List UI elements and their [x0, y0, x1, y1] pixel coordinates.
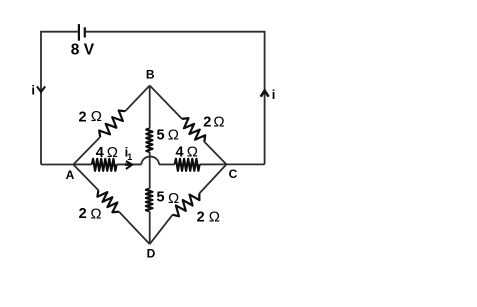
resistor 4-ohm left (A side) [92, 159, 117, 171]
svg-text:Ω: Ω [209, 208, 220, 225]
wire B to upper 5-ohm resistor [149, 86, 151, 129]
wire right to node C [226, 163, 264, 165]
resistor 5-ohm upper [146, 129, 152, 152]
resistor 2-ohm on arm B-C [182, 118, 205, 142]
resistor 4-ohm right (C side) [175, 159, 200, 171]
resistor 2-ohm on arm D-C [173, 194, 200, 217]
wire A to resistor on A-D arm [73, 165, 98, 191]
wire A to resistor on A-B arm [73, 137, 100, 165]
battery 8V long plate [78, 24, 80, 41]
wire A to left 4-ohm resistor [73, 163, 92, 165]
resistor 5-ohm lower [146, 189, 153, 211]
resistor 2-ohm on arm A-B [99, 111, 125, 138]
svg-text:4: 4 [96, 145, 104, 161]
svg-text:Ω: Ω [213, 114, 224, 131]
svg-text:1: 1 [127, 152, 132, 162]
wire upper 5-ohm resistor to lower 5-ohm resistor [149, 152, 151, 189]
arrow current i up on right wire [261, 91, 269, 97]
svg-text:D: D [147, 246, 156, 260]
svg-text:Ω: Ω [107, 144, 118, 161]
svg-text:5: 5 [157, 190, 165, 206]
svg-text:2: 2 [79, 109, 87, 125]
svg-text:Ω: Ω [90, 206, 101, 223]
wire left to node A [41, 164, 73, 166]
wire bump to right 4-ohm resistor [159, 163, 175, 165]
svg-text:Ω: Ω [91, 108, 102, 125]
svg-text:2: 2 [203, 115, 211, 131]
arrow current i down on left wire [37, 86, 45, 92]
wire resistor on D-C arm to C [199, 164, 226, 193]
wire B to resistor on B-C arm [150, 86, 182, 119]
svg-text:5: 5 [157, 128, 165, 144]
svg-text:2: 2 [79, 206, 87, 222]
wire left 4-ohm resistor to bump [117, 163, 142, 165]
svg-text:8 V: 8 V [71, 42, 95, 59]
wire D to resistor on D-C arm [150, 215, 173, 244]
svg-text:i: i [31, 83, 35, 98]
wire resistor on A-D arm to D [119, 212, 150, 245]
svg-text:Ω: Ω [168, 126, 179, 143]
resistor 2-ohm on arm A-D [97, 190, 119, 212]
svg-text:Ω: Ω [168, 190, 179, 207]
svg-text:2: 2 [197, 209, 205, 225]
wire right 4-ohm resistor to C [200, 163, 227, 165]
wire top-left segment [41, 32, 78, 165]
wire resistor on B-C arm to C [204, 142, 226, 165]
battery 8V short plate [84, 27, 86, 37]
svg-text:C: C [229, 167, 238, 181]
svg-text:i: i [272, 87, 276, 102]
svg-text:A: A [66, 168, 75, 182]
svg-text:B: B [146, 67, 155, 81]
wire resistor on A-B arm to B [125, 86, 150, 112]
wire top-right segment [86, 32, 265, 165]
svg-text:Ω: Ω [187, 143, 198, 160]
arrow current i1 on centre wire [126, 161, 132, 169]
wire lower 5-ohm resistor to D [149, 211, 151, 244]
wire hop bump over centre branch [141, 157, 159, 165]
svg-text:4: 4 [175, 144, 183, 160]
